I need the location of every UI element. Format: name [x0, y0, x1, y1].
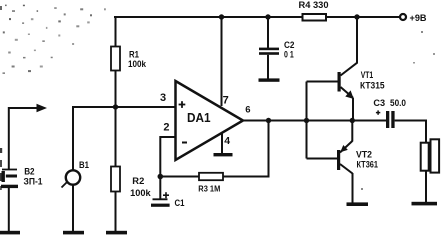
ground earphone: [412, 202, 438, 206]
opamp plus mark: [179, 101, 186, 108]
svg-text:100k: 100k: [128, 59, 147, 69]
junction output / feedback: [266, 118, 271, 123]
wire emitter node to VT2: [351, 121, 353, 142]
resistor R2: [111, 167, 120, 192]
svg-text:В2: В2: [24, 167, 34, 177]
ground R2: [106, 231, 127, 235]
ground VT2: [347, 202, 369, 206]
wire B1 branch: [72, 106, 74, 171]
wire R2 to ground: [115, 192, 117, 233]
piezo transducer B2: [2, 169, 17, 171]
svg-text:50.0: 50.0: [390, 98, 406, 108]
svg-text:ЗП-1: ЗП-1: [24, 177, 43, 187]
wire R1 to input node: [115, 71, 117, 109]
capacitor C2: [267, 17, 269, 48]
wire feedback left segment: [160, 176, 199, 178]
wire feedback vertical: [268, 121, 270, 178]
ground B2: [0, 231, 20, 235]
terminal +9V: [400, 14, 406, 20]
svg-text:VT2: VT2: [356, 150, 372, 160]
transistor VT1: [338, 72, 341, 92]
svg-text:В1: В1: [79, 160, 89, 170]
wire base coupling vertical: [306, 82, 308, 159]
capacitor C1: [159, 177, 161, 200]
svg-text:0 1: 0 1: [284, 50, 294, 60]
wire node to R2: [115, 107, 117, 167]
svg-text:R3 1M: R3 1M: [198, 183, 220, 193]
junction emitter node: [350, 118, 355, 123]
wire B2 branch with arrow: [9, 107, 39, 109]
svg-text:3: 3: [160, 92, 166, 104]
opamp minus mark: [182, 142, 187, 144]
svg-text:100k: 100k: [130, 188, 152, 198]
wire rail to R1: [115, 17, 117, 47]
wire pin 4: [221, 132, 223, 154]
wire VT2 collector: [352, 173, 354, 203]
earphone BF: [421, 143, 429, 171]
ground pin 4: [214, 153, 233, 156]
svg-text:+9В: +9В: [410, 13, 427, 24]
wire pin 7: [221, 17, 223, 106]
svg-text:2: 2: [163, 122, 169, 134]
wire VT1 collector: [356, 17, 358, 64]
junction input node: [113, 104, 118, 109]
wire top rail left: [114, 16, 302, 18]
svg-text:6: 6: [245, 105, 250, 116]
svg-text:C3: C3: [373, 98, 385, 108]
svg-text:C2: C2: [284, 40, 295, 50]
wire op-amp output: [243, 120, 386, 122]
svg-text:КТ361: КТ361: [357, 160, 379, 170]
svg-text:C1: C1: [175, 198, 185, 208]
svg-text:4: 4: [224, 135, 230, 147]
junction feedback node: [158, 174, 164, 180]
wire VT1 emitter: [352, 98, 354, 121]
scan noise speckles top-left: [0, 5, 435, 190]
junction pin7 / rail: [219, 14, 224, 19]
resistor R4: [303, 14, 327, 21]
svg-text:7: 7: [223, 95, 229, 107]
junction output / base line: [304, 118, 309, 123]
microphone B1: [66, 170, 80, 184]
op-amp DA1: [176, 81, 244, 160]
resistor R1: [111, 47, 120, 71]
wire B2 to ground: [8, 188, 10, 232]
resistor R3: [199, 173, 223, 180]
svg-text:R2: R2: [132, 176, 144, 186]
svg-text:VT1: VT1: [361, 70, 374, 80]
wire top rail right: [327, 16, 400, 18]
svg-text:R4 330: R4 330: [299, 0, 329, 10]
junction C2 / rail: [265, 14, 270, 19]
wire feedback right segment: [223, 176, 269, 178]
wire VT2 base: [307, 158, 338, 160]
wire C3 to earphone: [395, 120, 426, 122]
wire pin 2: [160, 137, 175, 177]
wire VT1 base: [307, 81, 339, 83]
svg-text:КТ315: КТ315: [360, 80, 385, 90]
wire input node horizontal: [72, 106, 176, 108]
capacitor C3: [386, 111, 389, 128]
ground B1: [63, 231, 84, 235]
svg-text:DA1: DA1: [187, 111, 211, 125]
wire B1 to ground: [72, 185, 74, 232]
junction VT1 collector / rail: [354, 14, 359, 19]
transistor VT2: [337, 150, 340, 170]
wire earphone to ground: [425, 171, 427, 203]
